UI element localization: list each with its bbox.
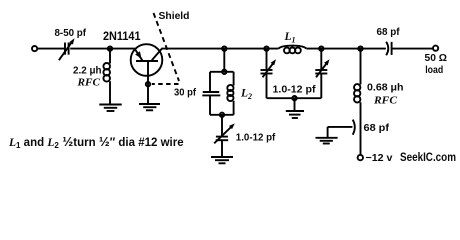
- wire C6 to output: [392, 48, 433, 50]
- svg-text:SeekIC.com: SeekIC.com: [400, 150, 456, 164]
- variable capacitor C4 left: [261, 49, 277, 99]
- wire L1 tank bottom rail: [267, 97, 322, 99]
- ground under C3: [211, 157, 233, 163]
- transistor Q1 2N1141: [131, 44, 163, 76]
- variable capacitor C5 right: [315, 49, 329, 99]
- node: junction L2 tank drop: [222, 46, 226, 50]
- node: junction L1 left: [264, 46, 268, 50]
- wire Q1 base lead: [147, 61, 149, 104]
- svg-text:L2: L2: [240, 88, 252, 102]
- node: L1 tank bottom junction: [292, 96, 296, 100]
- output terminal J2: [433, 46, 438, 51]
- svg-text:2.2 μh: 2.2 μh: [73, 65, 102, 76]
- inductor L1: [279, 46, 307, 54]
- wire input to C1: [37, 48, 64, 50]
- svg-text:L1 and L2 ½turn ½″ dia #12 wir: L1 and L2 ½turn ½″ dia #12 wire: [8, 134, 184, 150]
- variable capacitor C3 1.0-12 pf: [214, 123, 235, 143]
- node: tank top junction: [222, 70, 226, 74]
- svg-text:30 pf: 30 pf: [174, 88, 197, 99]
- inductor RFC2 0.68uh: [354, 49, 361, 155]
- svg-text:−12 v: −12 v: [366, 152, 393, 164]
- wire tank top bar: [210, 71, 234, 73]
- wire collector rail: [161, 48, 278, 50]
- shield partition (dashed): [152, 13, 179, 84]
- svg-text:8-50 pf: 8-50 pf: [55, 27, 87, 39]
- wire L1 hump right rail: [306, 48, 386, 50]
- wire tank bottom bar: [210, 114, 234, 116]
- node: junction L1 right: [319, 46, 323, 50]
- svg-text:RFC: RFC: [76, 77, 101, 88]
- input terminal J1: [32, 46, 37, 51]
- svg-text:1.0-12 pf: 1.0-12 pf: [273, 84, 317, 95]
- ground under L1 tank: [286, 98, 304, 118]
- node: base junction: [146, 82, 150, 86]
- wire C1 to Q1 emitter: [70, 48, 135, 50]
- capacitor C6 68 pf (series): [386, 42, 391, 55]
- svg-text:0.68 μh: 0.68 μh: [367, 83, 404, 94]
- svg-text:RFC: RFC: [373, 95, 398, 106]
- inductor RFC1 2.2uh: [103, 49, 110, 104]
- inductor L2: [227, 72, 233, 115]
- ground for C7: [316, 127, 338, 144]
- svg-text:load: load: [425, 64, 443, 76]
- svg-text:50 Ω: 50 Ω: [425, 52, 448, 64]
- capacitor C7 68 pf (bypass): [328, 120, 355, 135]
- svg-text:68 pf: 68 pf: [364, 123, 390, 134]
- variable capacitor C1 8-50 pf: [59, 38, 75, 60]
- svg-text:Shield: Shield: [159, 10, 190, 22]
- ground under Q1 base: [139, 104, 160, 110]
- node: junction RFC2: [358, 46, 362, 50]
- wire below C2: [209, 95, 211, 114]
- wire to C3: [221, 115, 223, 137]
- wire C3 to ground: [221, 140, 223, 157]
- supply terminal -12v: [358, 155, 363, 160]
- node: junction RFC1: [108, 46, 112, 50]
- wire drop to L2 tank: [223, 49, 225, 72]
- svg-text:1.0-12 pf: 1.0-12 pf: [236, 133, 276, 144]
- svg-text:L1: L1: [284, 31, 296, 45]
- wire left branch down: [209, 72, 211, 92]
- svg-text:2N1141: 2N1141: [103, 31, 141, 43]
- node: tank bottom junction: [220, 113, 224, 117]
- capacitor C2 30 pf: [202, 92, 220, 95]
- ground under RFC1: [99, 105, 121, 112]
- svg-text:68 pf: 68 pf: [377, 27, 401, 38]
